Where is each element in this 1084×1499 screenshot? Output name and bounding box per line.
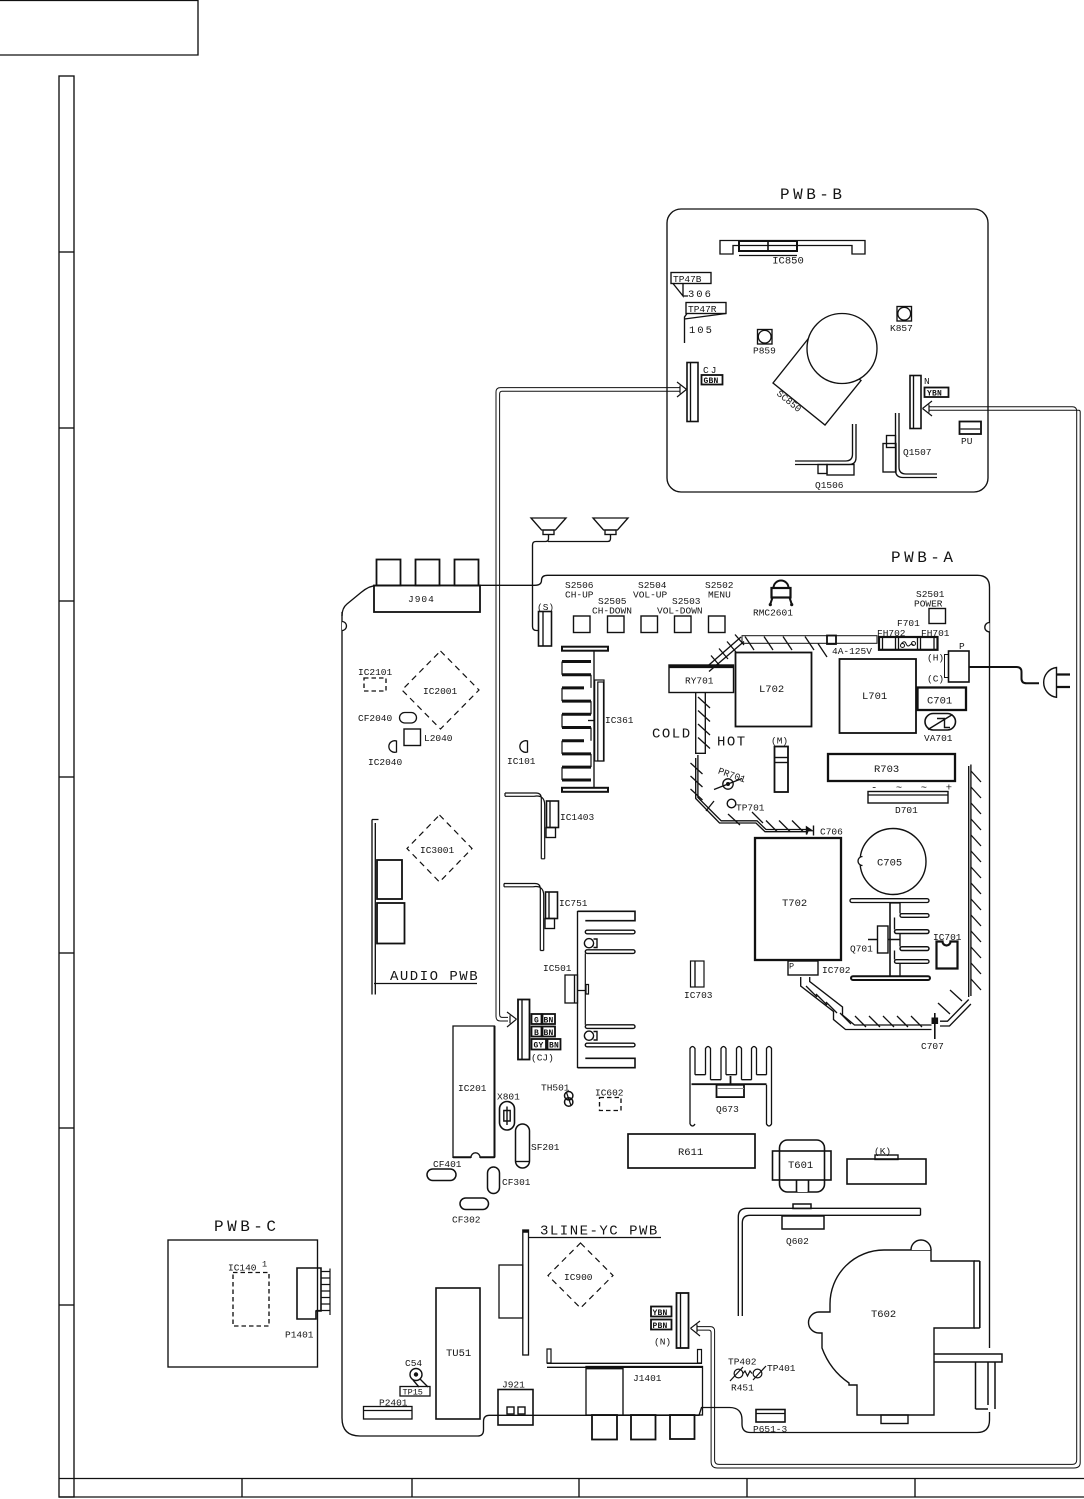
L2040 xyxy=(404,729,453,746)
left ruler tick 3 xyxy=(59,600,74,602)
fuse holder F701 / FH702 / FH701 xyxy=(832,618,950,657)
IC3001 (dashed diamond) xyxy=(407,815,472,882)
svg-text:IC1403: IC1403 xyxy=(560,812,595,823)
filter SF201 xyxy=(516,1124,560,1168)
switch S2506 xyxy=(574,616,591,633)
transformer T702 xyxy=(755,838,841,960)
IC602 (dashed) xyxy=(595,1088,624,1111)
bottom margin ruler band xyxy=(59,1479,1084,1498)
svg-text:TH501: TH501 xyxy=(541,1083,570,1094)
svg-text:PU: PU xyxy=(961,436,973,447)
IC2040 xyxy=(368,741,403,768)
AUDIO PWB board edge xyxy=(372,820,479,995)
svg-text:G: G xyxy=(534,1017,539,1026)
transistor Q602 with bracket xyxy=(738,1204,920,1316)
flyback transformer T602 xyxy=(809,1240,980,1424)
IC2001 (dashed diamond) xyxy=(402,651,479,729)
resistor R611 xyxy=(628,1134,755,1168)
svg-text:TP402: TP402 xyxy=(728,1357,757,1368)
svg-text:P1401: P1401 xyxy=(285,1330,314,1341)
capacitor C705 xyxy=(858,829,926,895)
svg-text:N: N xyxy=(924,376,930,387)
insulation barrier stepped (hot/cold lower-left) xyxy=(691,755,809,832)
relay RY701 xyxy=(669,665,734,693)
svg-text:IC751: IC751 xyxy=(559,898,588,909)
transistor Q1506 with bracket xyxy=(795,424,856,491)
connector (K) xyxy=(847,1146,926,1184)
IC751 with heatsink bracket xyxy=(504,884,588,951)
capacitor C54 with flag TP15 xyxy=(400,1358,430,1398)
transformer T601 xyxy=(773,1140,832,1192)
bottom ruler tick 5 xyxy=(914,1478,916,1497)
connector K857 xyxy=(890,307,913,335)
svg-text:(CJ): (CJ) xyxy=(531,1053,554,1064)
test point TP47R with flag and pin 105 xyxy=(685,303,727,344)
svg-text:C701: C701 xyxy=(927,696,952,708)
svg-text:Q701: Q701 xyxy=(850,944,873,955)
connector (N) on main board xyxy=(651,1293,689,1348)
svg-text:(M): (M) xyxy=(771,736,788,747)
svg-text:D701: D701 xyxy=(895,805,918,816)
speaker wire to (S) xyxy=(533,535,611,631)
svg-text:PBN: PBN xyxy=(653,1322,668,1331)
svg-text:RY701: RY701 xyxy=(685,676,714,687)
crystal X801 xyxy=(497,1092,520,1131)
insulation barrier vertical (cold/hot) xyxy=(696,693,710,754)
insulation barrier diagonal xyxy=(706,635,744,672)
bottom ruler tick 2 xyxy=(411,1478,413,1497)
connector J921 xyxy=(498,1380,533,1426)
connector P2401 xyxy=(364,1398,413,1420)
notch on left board edge xyxy=(342,622,347,631)
svg-text:T601: T601 xyxy=(788,1160,813,1172)
IC140 (dashed) xyxy=(228,1260,269,1327)
svg-text:IC3001: IC3001 xyxy=(420,845,455,856)
svg-text:4A-125V: 4A-125V xyxy=(832,646,872,657)
page corner box top-left xyxy=(0,1,198,56)
insulation barrier bar (top) xyxy=(742,636,877,658)
svg-text:TU51: TU51 xyxy=(446,1348,471,1360)
bottom ruler tick 1 xyxy=(241,1478,243,1497)
switch S2503 xyxy=(675,616,692,633)
svg-text:IC850: IC850 xyxy=(772,256,804,268)
svg-text:J1401: J1401 xyxy=(633,1373,662,1384)
svg-text:IC900: IC900 xyxy=(564,1272,593,1283)
resistor R703 xyxy=(828,754,955,781)
AC power cord and plug xyxy=(969,667,1070,697)
left ruler tick 7 xyxy=(59,1304,74,1306)
insulation barrier lower stepped (around T702) xyxy=(801,977,971,1030)
IC850 xyxy=(720,241,865,268)
connector PU xyxy=(960,422,982,448)
svg-text:MENU: MENU xyxy=(708,590,731,601)
svg-text:IC702: IC702 xyxy=(822,965,851,976)
IC101 xyxy=(507,741,536,767)
svg-text:BN: BN xyxy=(544,1029,554,1038)
svg-text:C706: C706 xyxy=(820,827,843,838)
transistor Q673 with heatsink xyxy=(690,1047,772,1127)
insulation barrier right vertical xyxy=(969,765,981,998)
IC702 xyxy=(788,961,851,976)
CF301 xyxy=(488,1167,531,1194)
svg-text:IC101: IC101 xyxy=(507,756,536,767)
bottom ruler tick 4 xyxy=(746,1478,748,1497)
svg-text:306: 306 xyxy=(688,289,713,301)
svg-text:BN: BN xyxy=(544,1017,554,1026)
svg-text:BN: BN xyxy=(549,1042,559,1051)
edge connector bar left of 3LINE area xyxy=(499,1230,529,1355)
IC501 with heatsink xyxy=(543,911,635,1068)
svg-text:GBN: GBN xyxy=(704,377,719,386)
svg-text:TP47B: TP47B xyxy=(673,274,702,285)
varistor VA701 xyxy=(924,714,956,745)
svg-text:C705: C705 xyxy=(877,858,902,870)
left ruler tick 6 xyxy=(59,1127,74,1129)
capacitor C707 xyxy=(921,1013,944,1052)
svg-text:HOT: HOT xyxy=(717,735,747,751)
svg-text:J904: J904 xyxy=(408,594,435,605)
svg-text:IC201: IC201 xyxy=(458,1083,487,1094)
left ruler tick 2 xyxy=(59,427,74,429)
svg-text:R703: R703 xyxy=(874,764,899,776)
connector N on PWB-B xyxy=(910,376,949,429)
svg-text:P859: P859 xyxy=(753,346,776,357)
svg-text:- ~ ~ +: - ~ ~ + xyxy=(871,783,954,795)
arrow into N on main board xyxy=(691,1321,701,1336)
svg-text:AUDIO PWB: AUDIO PWB xyxy=(390,969,479,985)
svg-text:P651-3: P651-3 xyxy=(753,1424,788,1435)
bottom ruler tick 3 xyxy=(578,1478,580,1497)
switch S2505 xyxy=(608,616,625,633)
svg-text:TP15: TP15 xyxy=(403,1388,423,1398)
svg-text:C707: C707 xyxy=(921,1041,944,1052)
IC2101 (dashed) xyxy=(358,667,393,691)
wire CJ (PWB-B to main board, double line) xyxy=(496,388,680,1021)
switch S2501 POWER xyxy=(914,589,946,624)
svg-text:CF301: CF301 xyxy=(502,1177,531,1188)
IC201 xyxy=(453,1026,495,1157)
svg-text:L701: L701 xyxy=(862,691,887,703)
switch S2502 xyxy=(709,616,726,633)
PWB-C board xyxy=(168,1218,318,1367)
svg-text:YBN: YBN xyxy=(653,1309,668,1318)
connector (CJ) on main board xyxy=(518,1000,561,1064)
connector P859 xyxy=(753,330,776,357)
arrow into CJ on main board xyxy=(507,1012,517,1027)
svg-text:(N): (N) xyxy=(654,1337,671,1348)
svg-text:T602: T602 xyxy=(871,1309,896,1321)
svg-text:VA701: VA701 xyxy=(924,733,953,744)
svg-text:TP401: TP401 xyxy=(767,1363,796,1374)
svg-text:P: P xyxy=(789,962,794,972)
PWB-B board outline xyxy=(667,209,988,492)
svg-text:VOL-UP: VOL-UP xyxy=(633,590,668,601)
arrow into N on PWB-B xyxy=(923,401,933,416)
jumper (M) xyxy=(771,736,788,793)
test points TP402 TP401 and resistor R451 xyxy=(728,1357,796,1394)
transistor Q701 with heatsink xyxy=(850,899,930,980)
svg-text:CH-UP: CH-UP xyxy=(565,590,594,601)
svg-text:(H): (H) xyxy=(927,653,944,664)
connector CJ on PWB-B xyxy=(687,363,723,422)
left ruler tick 5 xyxy=(59,952,74,954)
svg-text:IC2001: IC2001 xyxy=(423,686,458,697)
IC701 xyxy=(933,932,962,969)
test point TP701 xyxy=(727,799,765,813)
IC1403 with heatsink bracket xyxy=(505,793,595,859)
svg-text:GY: GY xyxy=(534,1042,544,1051)
svg-text:COLD: COLD xyxy=(652,727,692,743)
svg-text:R611: R611 xyxy=(678,1147,703,1159)
IC703 xyxy=(684,961,713,1001)
speaker left xyxy=(531,518,566,535)
svg-text:L2040: L2040 xyxy=(424,733,453,744)
connector J904 xyxy=(374,560,480,613)
potentiometer PR701 xyxy=(714,766,747,790)
line filter L701 xyxy=(840,659,917,733)
T602 anode bracket xyxy=(934,1354,1002,1409)
svg-text:(C): (C) xyxy=(927,674,944,685)
svg-text:IC703: IC703 xyxy=(684,990,713,1001)
svg-text:105: 105 xyxy=(689,325,714,337)
svg-text:CF2040: CF2040 xyxy=(358,713,393,724)
svg-text:Q602: Q602 xyxy=(786,1236,809,1247)
connector P1401 xyxy=(285,1268,330,1341)
CF2040 xyxy=(358,713,417,725)
connector P (AC inlet) xyxy=(927,641,969,685)
IC900 (dashed diamond) xyxy=(548,1243,613,1308)
line filter L702 xyxy=(736,653,812,727)
svg-text:Q1507: Q1507 xyxy=(903,447,932,458)
left margin ruler band xyxy=(59,76,74,1497)
capacitor C701 xyxy=(918,688,967,711)
CF401 xyxy=(427,1159,462,1181)
PWB-A board outline left/bottom/right xyxy=(342,612,990,1436)
svg-text:T702: T702 xyxy=(782,898,807,910)
test point TP47B with flag and pin 306 xyxy=(671,273,713,302)
left ruler tick 1 xyxy=(59,251,74,253)
IC361 heatsink xyxy=(562,647,634,792)
svg-text:L702: L702 xyxy=(759,684,784,696)
connector (S) xyxy=(537,602,554,646)
svg-text:IC2040: IC2040 xyxy=(368,757,403,768)
svg-text:IC361: IC361 xyxy=(605,715,634,726)
svg-text:Q1506: Q1506 xyxy=(815,480,844,491)
wire N (PWB-B to main board, double line) xyxy=(697,407,1080,1468)
svg-text:SF201: SF201 xyxy=(531,1142,560,1153)
capacitor C706 xyxy=(807,826,844,838)
PWB-A board outline top and left xyxy=(342,575,990,1348)
svg-text:IC2101: IC2101 xyxy=(358,667,393,678)
svg-text:IC501: IC501 xyxy=(543,963,572,974)
svg-text:CF302: CF302 xyxy=(452,1215,481,1226)
speaker right xyxy=(593,518,628,535)
tuner TU51 xyxy=(436,1288,480,1419)
svg-text:RMC2601: RMC2601 xyxy=(753,608,793,619)
notch on right board edge xyxy=(985,623,990,632)
connector P651-3 xyxy=(753,1410,788,1436)
IR receiver RMC2601 xyxy=(753,581,793,619)
svg-text:B: B xyxy=(534,1029,539,1038)
CF302 xyxy=(452,1198,489,1226)
svg-text:PWB-A: PWB-A xyxy=(891,549,957,567)
svg-text:R451: R451 xyxy=(731,1383,754,1394)
svg-text:TP47R: TP47R xyxy=(688,304,717,315)
diode bridge D701 xyxy=(868,792,948,817)
svg-text:TP701: TP701 xyxy=(736,803,765,814)
transistor Q1507 with bracket xyxy=(883,413,937,478)
3LINE-YC PWB label xyxy=(529,1224,662,1240)
switch S2504 xyxy=(641,616,658,633)
arrow into CJ on PWB-B xyxy=(677,382,687,397)
left ruler tick 4 xyxy=(59,776,74,778)
svg-text:PWB-C: PWB-C xyxy=(214,1218,280,1236)
svg-text:YBN: YBN xyxy=(927,390,942,399)
svg-text:K857: K857 xyxy=(890,323,913,334)
connector J1401 xyxy=(547,1349,703,1440)
svg-text:1: 1 xyxy=(262,1260,267,1270)
svg-text:VOL-DOWN: VOL-DOWN xyxy=(657,606,703,617)
thermistor TH501 xyxy=(541,1083,573,1107)
svg-text:CH-DOWN: CH-DOWN xyxy=(592,606,632,617)
svg-text:Q673: Q673 xyxy=(716,1104,739,1115)
svg-text:PWB-B: PWB-B xyxy=(780,186,846,204)
speaker SC850 (rotated body with cone) xyxy=(773,314,877,426)
svg-text:C54: C54 xyxy=(405,1358,422,1369)
